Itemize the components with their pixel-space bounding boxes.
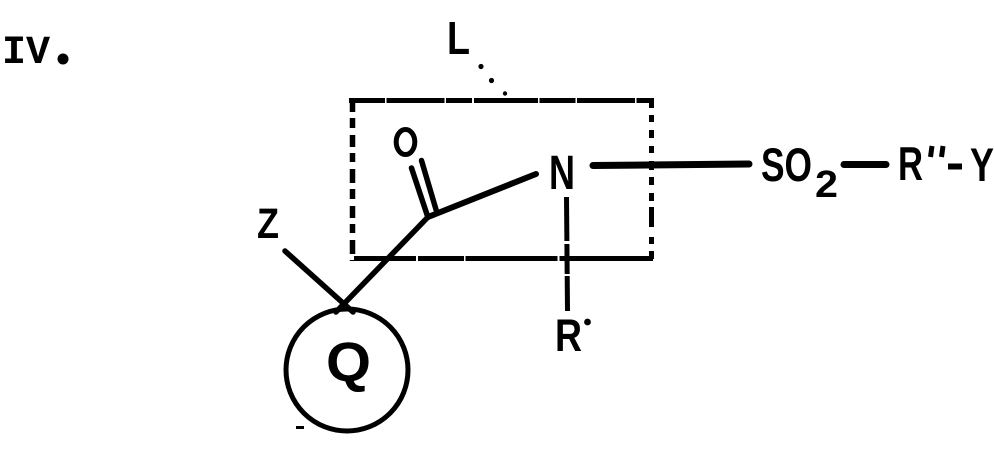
svg-text:2: 2 [815, 164, 838, 206]
svg-text:Z: Z [257, 200, 279, 248]
formula label IV. [2, 31, 69, 76]
dashed box around amide group: top edge [349, 98, 653, 103]
svg-text:Q: Q [326, 330, 371, 393]
svg-text:N: N [549, 147, 575, 200]
label R''-Y [898, 137, 994, 191]
stray mark [296, 426, 304, 429]
svg-text:SO: SO [761, 138, 812, 191]
bond N-SO2 [593, 164, 749, 166]
double bond C=O [412, 161, 437, 217]
svg-text:R: R [898, 137, 923, 190]
label R' [555, 310, 591, 361]
bond SO2-R'' [844, 161, 886, 168]
dashed box: left edge [350, 98, 356, 261]
dotted leader from L to box [478, 64, 507, 96]
svg-text:IV: IV [2, 31, 50, 76]
label SO2 [761, 138, 838, 206]
svg-text:Y: Y [970, 138, 994, 191]
svg-text:L: L [447, 12, 470, 64]
svg-text:R: R [555, 310, 582, 361]
bond N-R' (vertical) [567, 197, 568, 311]
bond C to ring Q [336, 216, 429, 312]
ring Q circle [286, 309, 408, 431]
bond C-N [428, 174, 536, 217]
dashed box: bottom edge [354, 256, 653, 261]
atom O (carbonyl oxygen) [396, 130, 415, 155]
bond Z to ring Q [285, 251, 353, 312]
dashed box: right edge [649, 98, 654, 259]
